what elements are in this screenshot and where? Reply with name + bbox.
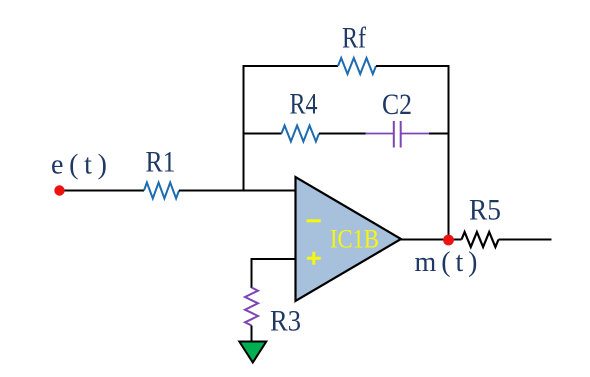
resistor R1 — [144, 183, 179, 199]
wire: non-inverting input horizontal — [252, 258, 296, 260]
wire: C2 to right vertical — [429, 133, 450, 135]
wire: R4 to C2 segment — [319, 133, 366, 135]
svg-text:R3: R3 — [270, 305, 301, 338]
wire: input lead from e(t) node to R1 — [60, 190, 145, 192]
wire: R1 to op-amp inverting input — [179, 190, 296, 192]
op-amp U1 (IC1B) triangle — [296, 177, 402, 301]
wire: top feedback right segment — [376, 65, 450, 67]
svg-text:e(t): e(t) — [51, 150, 107, 181]
svg-text:IC1B: IC1B — [330, 225, 379, 254]
wire: R3 to ground — [251, 326, 253, 344]
node e(t) dot — [54, 185, 64, 195]
wire: op-amp output to node m(t) — [399, 239, 449, 241]
svg-text:m(t): m(t) — [415, 247, 478, 278]
wire: non-inverting input vertical to R3 — [251, 258, 253, 288]
resistor R3 — [245, 288, 258, 326]
svg-text:Rf: Rf — [342, 21, 367, 54]
resistor R4 — [282, 126, 320, 142]
wire: top feedback left segment — [243, 65, 339, 67]
svg-text:R1: R1 — [146, 146, 176, 179]
op-amp inverting marking - — [307, 219, 321, 222]
node m(t) dot — [443, 235, 454, 246]
op-amp non-inverting marking + — [307, 252, 321, 265]
capacitor C2 — [366, 121, 430, 148]
svg-text:C2: C2 — [382, 88, 412, 121]
svg-text:R4: R4 — [289, 87, 317, 120]
svg-text:R5: R5 — [469, 193, 501, 226]
resistor Rf — [338, 58, 376, 74]
wire: R4 branch left segment — [244, 133, 282, 135]
wire: node to R5 — [449, 239, 462, 241]
resistor R5 — [462, 232, 499, 247]
wire: R5 to output terminal — [499, 239, 552, 241]
wire: right feedback vertical to output node — [448, 65, 450, 240]
ground — [239, 342, 266, 363]
node A: feedback junction vertical wire — [243, 65, 245, 192]
